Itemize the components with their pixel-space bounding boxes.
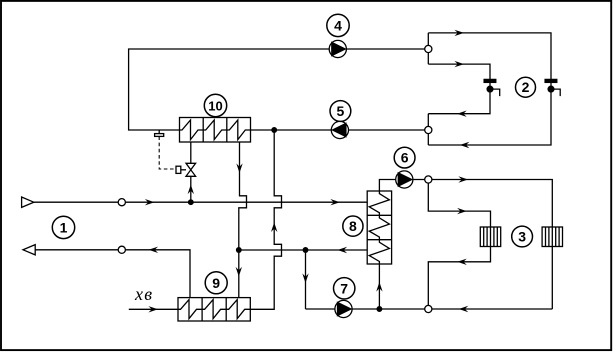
- svg-text:4: 4: [334, 17, 342, 33]
- wire: circuit2 outer branch top/right/bottom: [428, 33, 551, 145]
- wire: cold water inlet to ex9: [129, 308, 178, 310]
- convector radiator 3b: [542, 227, 562, 247]
- heat exchanger U10: [180, 118, 251, 143]
- flow arrow up through valve branch: [188, 185, 194, 195]
- wire: pipe from node down into ex9 top: [238, 250, 240, 298]
- svg-text:5: 5: [337, 103, 345, 119]
- wire: circuit2 stem bottom vertical: [427, 114, 429, 145]
- label 3: [512, 226, 533, 247]
- flow arrow down into ex9: [236, 267, 242, 277]
- flow arrow circuit3 inner return left: [457, 259, 467, 265]
- flow arrow return1 left: [149, 247, 159, 253]
- wire: ex8 bottom pipe down to pump7 line: [379, 180, 426, 192]
- pump P4: [329, 40, 346, 57]
- flow arrow circuit2 inner return left: [457, 111, 467, 117]
- flow arrow up riser to pump5 line: [271, 222, 277, 232]
- svg-text:7: 7: [340, 280, 348, 296]
- pump P6: [396, 171, 413, 188]
- inlet triangle supply 1: [22, 197, 34, 207]
- svg-text:1: 1: [60, 219, 68, 235]
- label 10: [204, 94, 226, 116]
- heat exchanger U8: [367, 191, 391, 264]
- connector circle pump6 outlet: [425, 176, 432, 183]
- label 2: [516, 77, 536, 97]
- flow arrow circuit2 inner right: [454, 61, 464, 67]
- radiator 2a (bar, dot, bracket): [484, 79, 500, 96]
- wire: ex8 top pipe to pump6 line: [378, 264, 380, 309]
- label 1: [52, 216, 74, 238]
- flow arrow circuit3 bottom left: [459, 306, 469, 312]
- node: junction dot on pump5 line at riser: [272, 128, 277, 133]
- wire: return line from ex8 lower-left port: [239, 249, 367, 251]
- wire: circuit3 inner branch through radiator 3a and return stem: [428, 180, 490, 310]
- label 6: [394, 147, 415, 168]
- flow arrow supply1 right: [145, 199, 155, 205]
- label 5: [330, 101, 351, 122]
- wire: riser x=274 from pump5-line node down with two jogs into ex9 right port: [251, 130, 282, 309]
- radiator 2b (bar, dot, bracket): [545, 79, 560, 96]
- wire: ex10 left lower pipe below valve to supply line: [190, 176, 192, 202]
- connector circle circuit3 return: [425, 305, 432, 312]
- wire: circuit3 outer branch (top line and right column through radiator 3b): [428, 180, 552, 310]
- wire: drop from return node to pump7 line: [305, 250, 307, 309]
- flow arrow from ex8 lower port left: [338, 247, 348, 253]
- wire: ex10 right lower pipe with jog over supply line, down to node at return line: [239, 142, 247, 250]
- convector radiator 3a: [480, 227, 500, 247]
- flow arrow down to pump7: [302, 273, 308, 283]
- flow arrow circuit3 top right: [458, 176, 468, 182]
- wire: supply line 1 (left inlet to ex8 upper-left port): [34, 201, 367, 203]
- label 9: [205, 272, 227, 294]
- flow arrow cold water into ex9: [148, 306, 158, 312]
- dashed control link sensor to actuator: [159, 136, 176, 169]
- flow arrow circuit3 inner right: [457, 208, 467, 214]
- svg-text:2: 2: [522, 79, 530, 95]
- svg-text:9: 9: [212, 275, 220, 291]
- wire: circuit2 inner branch: [428, 64, 490, 114]
- pump P5: [331, 121, 348, 138]
- wire: return line 1 (corner above ex9 to left outlet): [35, 250, 190, 298]
- connector circle on return line 1: [118, 246, 125, 253]
- node: junction dot on supply line at valve branch: [189, 200, 194, 205]
- control valve with actuator: [176, 163, 196, 176]
- label 4: [327, 14, 349, 36]
- svg-text:8: 8: [349, 218, 357, 234]
- svg-text:6: 6: [401, 150, 409, 166]
- svg-text:хв: хв: [134, 284, 153, 304]
- outlet triangle return 1: [23, 245, 35, 255]
- wire: pump7 line and circuit3 bottom return: [306, 308, 553, 310]
- flow arrow circuit2 top right: [454, 30, 464, 36]
- wire: pump5 return line (circuit2 to ex10 right port): [251, 129, 427, 131]
- connector circle pump5 inlet: [425, 126, 432, 133]
- flow arrow down ex10 right pipe: [236, 163, 242, 173]
- node: junction dot return line / pump7 drop: [303, 248, 308, 253]
- connector circle on supply line 1: [118, 199, 125, 206]
- node: junction dot return line / ex9 feed: [237, 248, 242, 253]
- pump P7: [335, 300, 352, 317]
- label 7: [334, 278, 355, 299]
- temperature sensor on pump5 line: [155, 130, 164, 136]
- wire: ex10 left lower pipe above valve: [190, 142, 192, 163]
- connector circle pump4 outlet: [425, 45, 432, 52]
- heat exchanger U9: [178, 298, 250, 321]
- flow arrow into ex8 upper port: [330, 199, 340, 205]
- wire: loop A supply (ex10 left port, up left riser, pump4 line): [129, 49, 426, 130]
- svg-text:3: 3: [518, 229, 526, 245]
- node: junction dot pump7 line / ex8 bottom: [377, 307, 382, 312]
- label 8: [343, 216, 363, 236]
- wire: circuit2 stem top vertical: [427, 33, 429, 64]
- flow arrow up into ex8 bottom: [376, 282, 382, 292]
- svg-text:10: 10: [208, 99, 222, 114]
- flow arrow circuit2 bottom left: [460, 142, 470, 148]
